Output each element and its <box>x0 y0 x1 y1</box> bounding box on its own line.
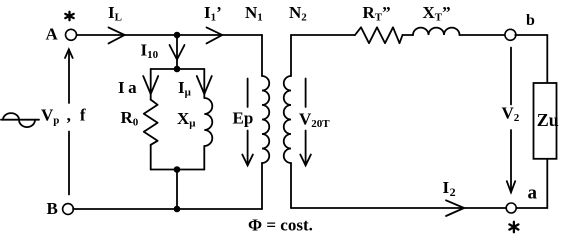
wire A to primary top <box>77 34 262 36</box>
svg-text:Ia: Ia <box>118 78 137 97</box>
node junction shunt top <box>174 66 181 73</box>
load impedance Zu <box>534 83 557 159</box>
label V2 <box>502 104 520 125</box>
current arrow Ia <box>143 76 158 94</box>
label I2 <box>443 178 456 199</box>
svg-text:R0: R0 <box>121 108 139 129</box>
svg-text:I10: I10 <box>141 41 159 62</box>
label V20T <box>299 110 330 131</box>
current arrow IL <box>109 27 125 43</box>
wire Xu branch lower <box>203 146 205 170</box>
node junction bottom rail <box>174 206 181 213</box>
wire R0 branch lower <box>150 145 152 170</box>
label I1' <box>204 3 222 24</box>
svg-text:N2: N2 <box>289 3 307 24</box>
svg-text:B: B <box>47 199 58 218</box>
wire RT to XT <box>403 34 414 36</box>
voltage arrow Ep <box>242 79 253 166</box>
node junction shunt bottom <box>174 166 181 173</box>
label Vp,f <box>41 106 86 127</box>
wire arrow B to A (Vp direction) <box>65 49 73 194</box>
current arrow I1' <box>207 27 223 43</box>
wire XT to b <box>460 34 507 36</box>
wire shunt to bottom rail <box>176 170 178 210</box>
wire secondary top to RT <box>291 34 355 36</box>
label N1 <box>245 3 263 24</box>
wire bottom rail secondary to a <box>291 207 506 209</box>
svg-text:Vp ,f: Vp ,f <box>41 106 86 127</box>
svg-text:Zu: Zu <box>537 110 559 130</box>
wire shunt top bar <box>151 68 205 70</box>
label Iu <box>178 78 192 99</box>
svg-text:b: b <box>526 12 535 29</box>
svg-text:IL: IL <box>108 3 122 24</box>
svg-text:Iμ: Iμ <box>178 78 192 99</box>
node B terminal <box>63 204 74 215</box>
label I10 <box>141 41 159 62</box>
svg-text:XT”: XT” <box>423 3 451 24</box>
secondary winding N2 (inductor) <box>284 35 291 208</box>
wire load bottom to a <box>515 159 547 208</box>
wire R0 branch upper <box>150 69 152 100</box>
label Zu <box>537 110 559 130</box>
label B <box>47 199 58 218</box>
label IL <box>108 3 122 24</box>
label A <box>46 25 59 44</box>
svg-text:Φ = cost.: Φ = cost. <box>248 216 313 235</box>
inductor Xu <box>204 98 212 146</box>
voltage arrow V20T <box>300 79 311 166</box>
voltage arrow V2 <box>507 48 515 193</box>
node junction on top wire <box>174 32 181 39</box>
node A terminal <box>66 29 77 40</box>
resistor R0 <box>144 100 158 145</box>
wire b to load top <box>515 35 547 83</box>
label flux cost <box>248 216 313 235</box>
svg-text:Xμ: Xμ <box>177 109 196 130</box>
label a <box>528 183 538 204</box>
label XT'' <box>423 3 451 24</box>
svg-text:I1’: I1’ <box>204 3 222 24</box>
AC source sine symbol <box>1 113 39 127</box>
inductor XT'' <box>413 28 460 35</box>
svg-text:a: a <box>528 183 538 204</box>
label R0 <box>121 108 139 129</box>
svg-text:V20T: V20T <box>299 110 330 131</box>
label Ep <box>233 109 254 128</box>
svg-text:A: A <box>46 25 59 44</box>
wire bottom rail B to primary <box>73 208 262 210</box>
svg-text:N1: N1 <box>245 3 263 24</box>
polarity mark at a <box>509 222 518 232</box>
wire Xu branch upper <box>203 69 205 98</box>
wire I10 branch down <box>176 38 178 69</box>
current arrow I10 <box>170 45 185 60</box>
node b terminal <box>505 29 516 40</box>
polarity mark at A <box>65 12 73 20</box>
label Ia <box>118 78 137 97</box>
label N2 <box>289 3 307 24</box>
primary winding N1 (inductor) <box>262 35 269 209</box>
current arrow I2 <box>446 200 464 216</box>
label RT'' <box>363 3 391 24</box>
resistor RT'' <box>355 27 403 43</box>
wire shunt bottom bar <box>151 169 205 171</box>
svg-text:V2: V2 <box>502 104 520 125</box>
current arrow Iu <box>197 76 212 94</box>
label b <box>526 12 535 29</box>
label Xu <box>177 109 196 130</box>
svg-text:I2: I2 <box>443 178 456 199</box>
svg-text:RT”: RT” <box>363 3 391 24</box>
node a terminal <box>506 203 516 213</box>
svg-text:Ep: Ep <box>233 109 254 128</box>
